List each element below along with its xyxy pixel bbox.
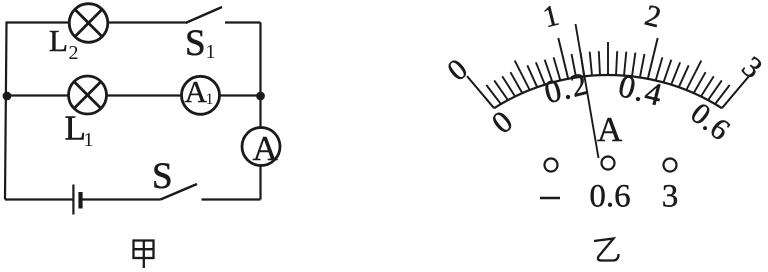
svg-text:2: 2 bbox=[642, 0, 665, 34]
wire bottom segment right bbox=[202, 198, 261, 200]
svg-text:A: A bbox=[185, 74, 208, 109]
wire bottom segment middle bbox=[83, 198, 161, 200]
terminal label minus bbox=[540, 197, 560, 200]
wire middle segment right bbox=[220, 94, 261, 96]
wire middle segment center bbox=[107, 94, 182, 96]
svg-text:0: 0 bbox=[485, 104, 519, 141]
node junction left bbox=[3, 92, 12, 101]
svg-text:2: 2 bbox=[69, 42, 79, 64]
wire right vertical upper bbox=[259, 23, 261, 129]
ammeter A bbox=[242, 128, 280, 166]
svg-text:1: 1 bbox=[206, 41, 216, 63]
lamp L2 bbox=[69, 4, 108, 43]
meter needle bbox=[576, 24, 599, 158]
svg-text:S: S bbox=[185, 23, 206, 64]
svg-text:0.6: 0.6 bbox=[684, 97, 736, 148]
svg-text:1: 1 bbox=[84, 129, 94, 151]
wire top segment left bbox=[6, 21, 70, 23]
battery cell positive plate bbox=[72, 185, 74, 215]
label S1 bbox=[185, 23, 216, 64]
label L1 bbox=[65, 109, 94, 152]
svg-text:0: 0 bbox=[441, 53, 474, 88]
svg-text:S: S bbox=[152, 156, 173, 197]
lamp L1 bbox=[69, 76, 107, 114]
caption jia (first circuit) bbox=[134, 241, 154, 269]
svg-text:1: 1 bbox=[206, 91, 214, 108]
wire left vertical bbox=[5, 23, 7, 200]
ammeter A1 bbox=[182, 76, 220, 114]
wire top segment middle bbox=[108, 21, 186, 23]
svg-text:A: A bbox=[597, 110, 623, 149]
switch S1 lever bbox=[186, 7, 223, 23]
caption yi (second, meter) bbox=[594, 239, 619, 261]
wire middle segment left bbox=[7, 94, 69, 96]
svg-text:1: 1 bbox=[540, 0, 563, 34]
wire bottom segment left bbox=[5, 198, 72, 200]
svg-text:L: L bbox=[49, 23, 68, 58]
wire right vertical lower bbox=[259, 166, 261, 200]
meter dial arc bbox=[494, 75, 722, 108]
svg-text:3: 3 bbox=[662, 179, 679, 215]
switch S lever bbox=[161, 184, 198, 200]
terminal 0.6 bbox=[602, 157, 615, 170]
node junction right bbox=[256, 92, 265, 101]
svg-text:0.6: 0.6 bbox=[589, 179, 630, 215]
svg-text:3: 3 bbox=[736, 50, 768, 85]
wire top segment right bbox=[225, 21, 261, 23]
terminal negative bbox=[545, 159, 558, 172]
label L2 bbox=[49, 23, 79, 64]
svg-text:0.4: 0.4 bbox=[615, 67, 667, 113]
terminal 3 bbox=[664, 159, 677, 172]
label A1 inside ammeter A1 bbox=[185, 74, 214, 109]
meter scale ticks bbox=[467, 38, 749, 108]
svg-text:A: A bbox=[253, 129, 279, 168]
battery cell negative plate bbox=[78, 192, 82, 209]
label S bbox=[152, 156, 173, 197]
